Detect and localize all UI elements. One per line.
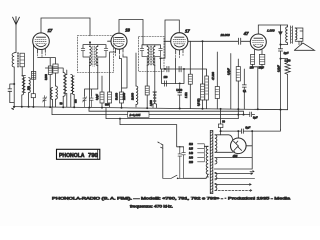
resistor R1 (32, 44, 34, 94)
capacitor C13 (239, 38, 241, 44)
capacitor C18 (230, 54, 232, 110)
resistor R6 (108, 92, 112, 103)
svg-text:47: 47 (243, 31, 249, 36)
svg-text:150: 150 (250, 68, 255, 70)
capacitor C16 (278, 49, 282, 51)
svg-text:50.000: 50.000 (117, 92, 119, 100)
HV line (221, 130, 241, 132)
mains capacitor Cb (182, 147, 186, 179)
wire L1 to ground bus (13, 67, 15, 107)
wire IF2 dot to detector (161, 58, 165, 69)
bus node dots (13, 106, 15, 108)
capacitor C10 (179, 66, 181, 72)
wire L4 top (45, 68, 67, 75)
capacitor C20 (218, 124, 223, 128)
wire cathode to bus (253, 64, 262, 109)
wire filament leads C (215, 184, 251, 186)
IF1 primary winding (89, 46, 91, 65)
trimmer C4 (90, 96, 93, 107)
svg-text:220: 220 (189, 161, 194, 164)
svg-text:0,1µF: 0,1µF (97, 93, 99, 100)
resistor R4 (53, 64, 58, 73)
IF2 primary winding (147, 47, 149, 66)
svg-text:1 MΩ: 1 MΩ (186, 92, 188, 98)
svg-text:140: 140 (189, 152, 194, 155)
resistor R13 (251, 54, 255, 64)
T1 secondary (295, 28, 297, 40)
SECTION-B tube V1 (33, 18, 98, 107)
svg-text:0,5 MΩ: 0,5 MΩ (199, 98, 201, 106)
capacitor C12 (178, 85, 182, 108)
IF2 shield box (139, 37, 165, 72)
resistor R2 (31, 94, 35, 98)
wire filament leads B (215, 173, 255, 179)
wire detector line (164, 68, 205, 70)
wire rail drop (237, 109, 239, 119)
SECTION-C IF transformer 1 (78, 36, 114, 107)
SECTION-F tube V3 detector (161, 20, 251, 109)
T2 secondary HV (215, 135, 217, 153)
svg-text:0,5µF: 0,5µF (227, 68, 231, 75)
wire V4 plate (258, 25, 287, 34)
V2 legs (116, 49, 123, 54)
voltage selector (198, 144, 207, 162)
model plate PHONOLA 790 (57, 149, 100, 159)
wire V1 plate loop (41, 18, 90, 36)
filament loop frame (214, 131, 252, 169)
T1 frame (295, 28, 303, 41)
wire cathode net (162, 58, 176, 84)
svg-text:frequenza: 470 kHz.: frequenza: 470 kHz. (130, 204, 173, 208)
SECTION-K labels (29, 61, 292, 209)
tube V4 (250, 34, 266, 50)
wire grid link (108, 40, 112, 42)
svg-text:18: 18 (125, 28, 130, 33)
V1 legs (38, 49, 46, 54)
svg-text:1=0,005: 1=0,005 (129, 113, 140, 117)
wire AF coupling (188, 40, 238, 42)
wire rectifier anode top (237, 131, 239, 138)
SECTION-G tube V4 output (243, 25, 290, 129)
arrow filament A (250, 171, 254, 173)
value box (128, 112, 149, 118)
resistor R16 (237, 41, 239, 66)
node dot (160, 57, 162, 59)
svg-text:0,1µF: 0,1µF (276, 65, 280, 72)
wire cathode row (38, 58, 56, 66)
mains capacitor Ca (178, 147, 182, 179)
wire L4 bottoms (63, 94, 74, 107)
capacitor C17 (250, 112, 252, 117)
wire IF2 bottoms (147, 65, 155, 92)
field coil R14 (285, 59, 290, 110)
wire screen line (110, 52, 116, 92)
wire IF1 bottoms (89, 66, 97, 107)
transformer T2 core (210, 131, 213, 194)
svg-text:47.000: 47.000 (211, 72, 215, 80)
svg-text:4.000: 4.000 (151, 100, 153, 106)
SECTION-D tube V2 (100, 20, 143, 108)
svg-text:160: 160 (189, 157, 194, 160)
core (150, 46, 151, 66)
svg-text:17: 17 (185, 29, 190, 34)
wire IF2 top links (142, 37, 161, 49)
svg-text:790: 790 (88, 153, 98, 159)
antenna coil L1 secondary (20, 53, 24, 67)
svg-text:5.000: 5.000 (46, 74, 48, 80)
speaker cone (294, 43, 314, 50)
wire cathode lines (120, 55, 128, 92)
trimmer C3 (83, 96, 87, 107)
svg-text:30: 30 (222, 122, 225, 124)
capacitor C5 (81, 48, 89, 65)
oscillator coil L2 (22, 76, 24, 95)
svg-text:10.000: 10.000 (221, 33, 231, 37)
SECTION-H output transformer speaker (280, 26, 315, 51)
svg-text:5.000: 5.000 (176, 90, 182, 92)
capacitor C9 (167, 66, 169, 72)
resistor R7 (120, 92, 124, 103)
resistor R3 (48, 66, 52, 75)
T2 secondary S2 (215, 158, 217, 164)
power switch S1 (163, 175, 184, 178)
svg-text:0,1: 0,1 (243, 91, 247, 93)
wire center tap (220, 128, 222, 135)
resistor R12 (205, 69, 207, 76)
wire secondary down (22, 67, 25, 76)
trimmer C2 (43, 96, 47, 107)
rail B2 (52, 107, 249, 115)
resistor R10 (189, 41, 191, 74)
node dot (89, 41, 91, 43)
IF1 secondary winding (96, 46, 98, 65)
T2 secondary S3 (215, 172, 217, 179)
oscillator coil L4 (63, 73, 65, 97)
rail B1 (89, 108, 244, 115)
T1 core (291, 26, 293, 44)
resistor R15 (216, 52, 218, 87)
tube V3 (171, 33, 188, 50)
wire grid link V3 (164, 40, 171, 42)
resistor R9 (146, 84, 148, 86)
voice coil (299, 41, 301, 45)
SECTION-A antenna input (8, 17, 36, 107)
wire IF1 top links (83, 42, 106, 48)
svg-text:1.300: 1.300 (285, 61, 291, 63)
rectifier tube V5 (231, 138, 247, 154)
SECTION-E IF transformer 2 (139, 37, 165, 108)
antenna (13, 17, 20, 25)
coil L3 (56, 86, 58, 99)
svg-text:PHONOLA-RADIO (S. A. FIMI). —: PHONOLA-RADIO (S. A. FIMI). — Modelli: «… (52, 197, 291, 201)
wire V3 plate loop (161, 20, 180, 58)
svg-text:110: 110 (189, 143, 193, 146)
rail B3 (106, 108, 238, 119)
resistor R5 (101, 76, 103, 92)
V4 legs (255, 49, 262, 54)
wire antenna lead (15, 25, 17, 53)
svg-text:25µF: 25µF (259, 68, 265, 70)
capacitor C21 (241, 129, 243, 134)
capacitor C6 (98, 48, 108, 65)
core (93, 46, 95, 66)
V3 legs (176, 49, 183, 55)
capacitor C19 (242, 69, 246, 109)
svg-text:50: 50 (60, 104, 63, 106)
IF1 shield box (78, 36, 114, 73)
IF2 secondary winding (153, 47, 155, 66)
capacitor C15 tone (280, 25, 282, 31)
capacitor C7 (140, 48, 147, 65)
output transformer T1 primary (286, 27, 288, 43)
tube V1 (33, 33, 50, 50)
wire rectifier cathode (246, 145, 252, 147)
capacitor C8 (155, 48, 163, 65)
wire V2 plate loop (119, 20, 143, 37)
rail B4 (120, 119, 177, 146)
svg-text:osc: osc (76, 99, 78, 103)
svg-text:8µF: 8µF (253, 116, 258, 120)
svg-text:300: 300 (105, 105, 110, 107)
capacitor C11 (165, 81, 167, 87)
svg-text:125: 125 (189, 148, 194, 151)
SECTION-J power supply (158, 109, 281, 194)
svg-text:1.000: 1.000 (267, 28, 275, 32)
choke L5 (135, 53, 137, 86)
T2 secondary S4 (215, 183, 217, 190)
tube V2 (111, 33, 127, 49)
svg-text:8µF: 8µF (245, 126, 250, 130)
svg-text:8µF: 8µF (284, 51, 289, 55)
wire HV to rectifier plates (215, 135, 235, 153)
T2 primary (206, 146, 208, 177)
trimmer capacitor C1 (8, 84, 14, 103)
volume control R8 (153, 92, 155, 104)
svg-text:PHONOLA: PHONOLA (59, 153, 85, 159)
ground bus (13, 107, 287, 110)
node dot (13, 83, 15, 85)
svg-text:100: 100 (164, 77, 169, 79)
antenna coil L1 primary (12, 53, 14, 67)
volume pot R11 (202, 41, 204, 84)
svg-text:25.000: 25.000 (124, 92, 126, 100)
SECTION-I rails (12, 41, 288, 146)
core (17, 53, 18, 68)
capacitor C14 (259, 54, 264, 64)
svg-text:10.000: 10.000 (132, 92, 134, 100)
wire to primary (184, 177, 207, 178)
mains plug (158, 142, 163, 148)
svg-text:17: 17 (48, 28, 53, 33)
